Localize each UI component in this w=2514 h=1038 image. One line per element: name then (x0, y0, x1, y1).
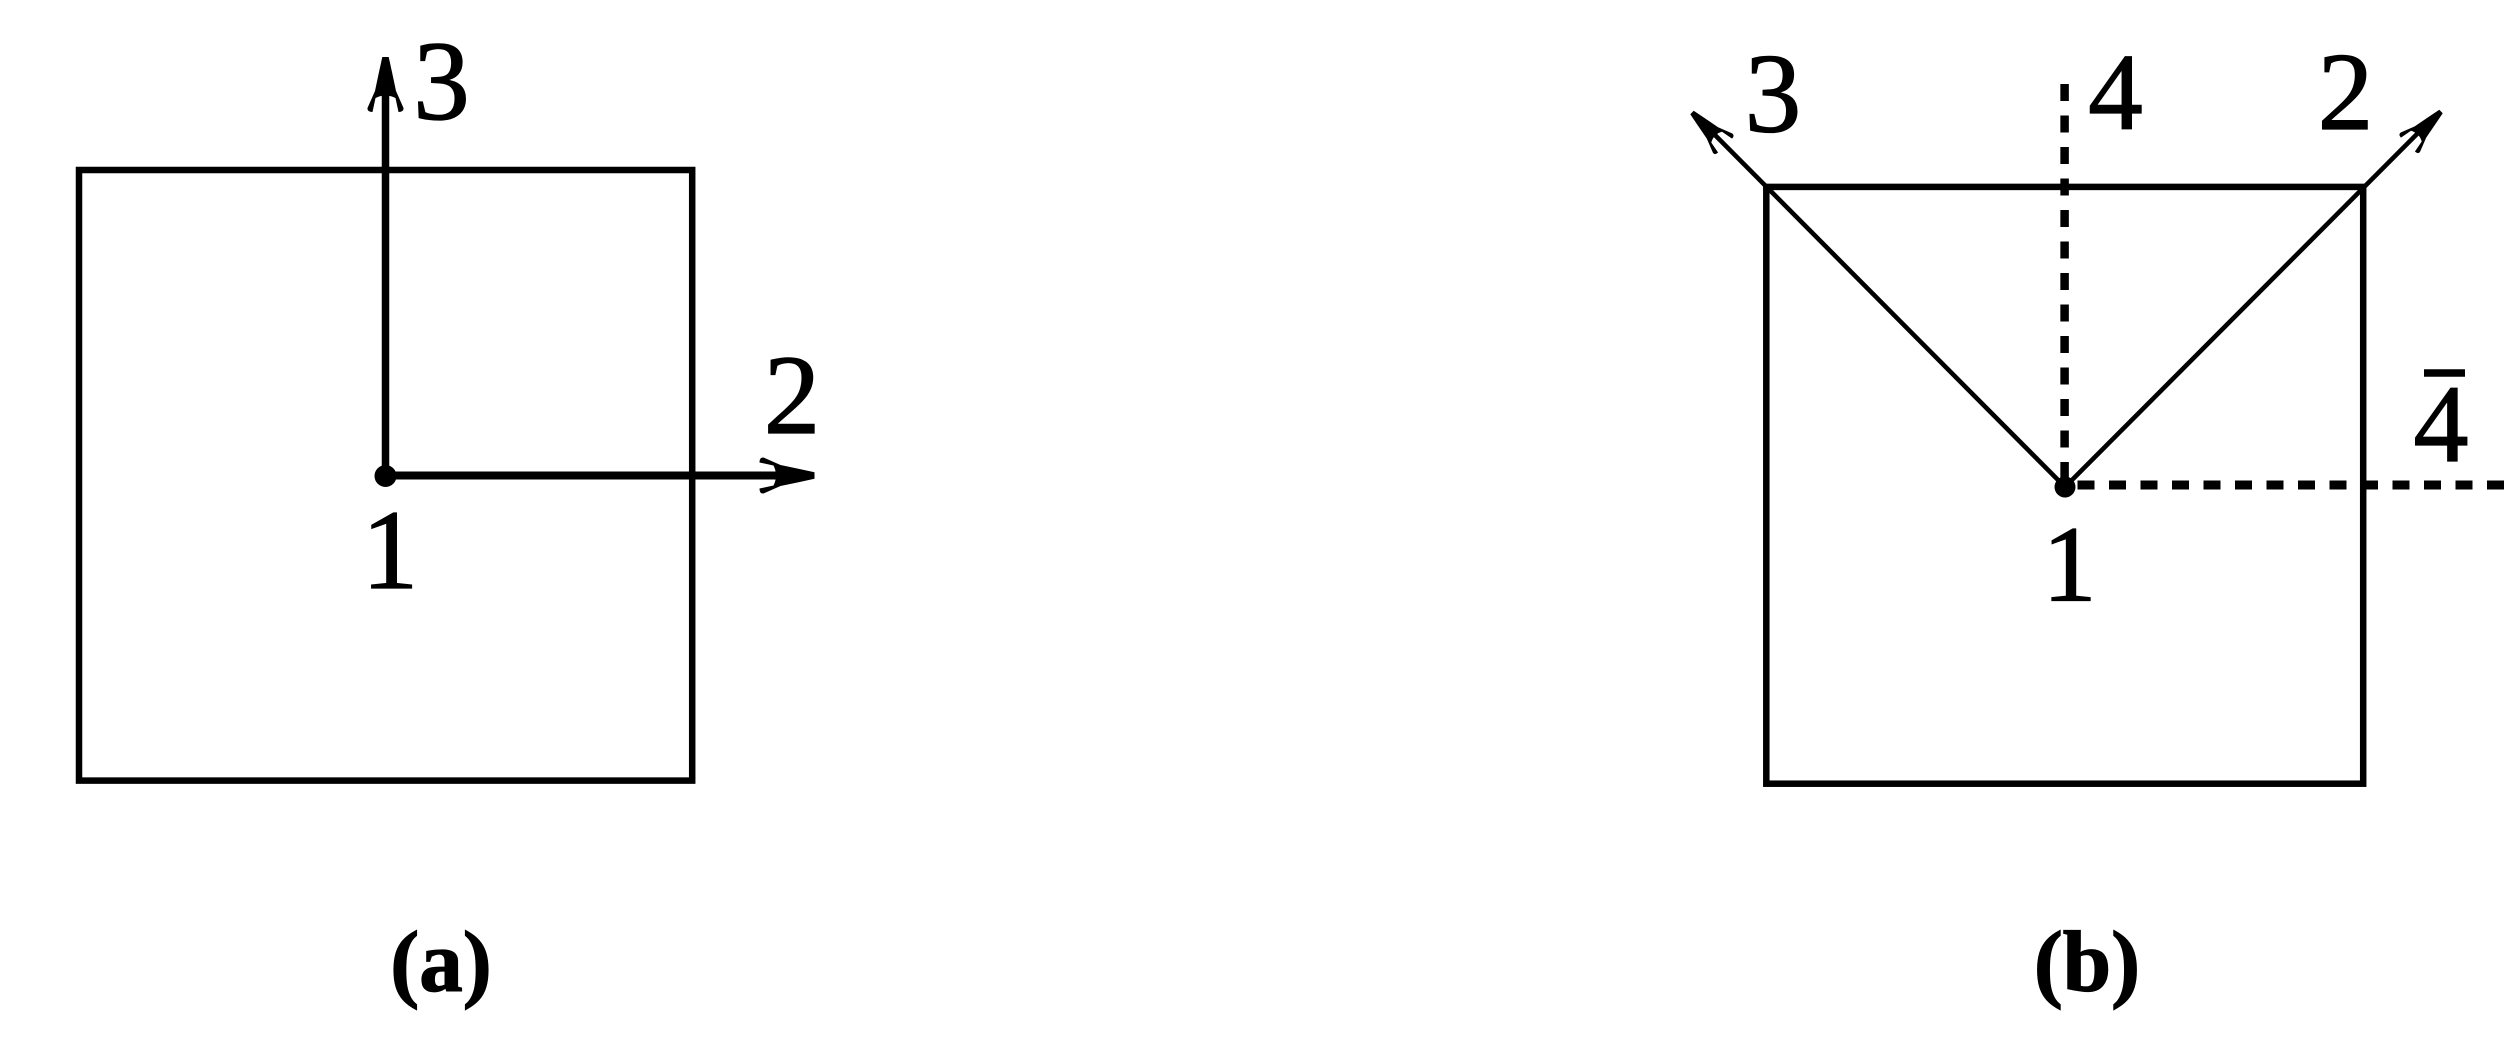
square (b) (1766, 187, 2363, 784)
node 1 of (b) (2055, 477, 2076, 498)
label 4bar overbar (b) (2424, 369, 2465, 377)
svg-text:3: 3 (413, 19, 470, 144)
wire: axis 4bar horizontal dashed (b) (2065, 481, 2504, 490)
wire: axis 3 shaft (a) (382, 88, 390, 476)
arrowhead of axis 2 (a) (760, 457, 815, 493)
svg-text:2: 2 (764, 333, 821, 458)
arrowhead of axis 2 (b) (2398, 102, 2450, 154)
wire: axis 3 diagonal shaft (b) (1709, 129, 2065, 487)
svg-text:3: 3 (1745, 32, 1802, 157)
wire: axis 2 diagonal shaft (b) (2065, 127, 2424, 487)
svg-text:1: 1 (362, 488, 419, 613)
svg-text:4: 4 (2088, 32, 2143, 153)
wire: axis 2 shaft (a) (386, 472, 783, 480)
svg-text:(a): (a) (390, 913, 491, 1010)
wire: axis 4 vertical dashed (b) (2060, 84, 2069, 487)
arrowhead of axis 3 (b) (1682, 103, 1734, 155)
svg-text:1: 1 (2043, 506, 2097, 625)
arrowhead of axis 3 (a) (367, 57, 403, 112)
square (a) (79, 170, 692, 781)
node 1 of (a) (375, 465, 397, 487)
svg-text:2: 2 (2318, 31, 2374, 154)
svg-text:4: 4 (2414, 363, 2469, 485)
svg-text:(b): (b) (2034, 913, 2140, 1010)
